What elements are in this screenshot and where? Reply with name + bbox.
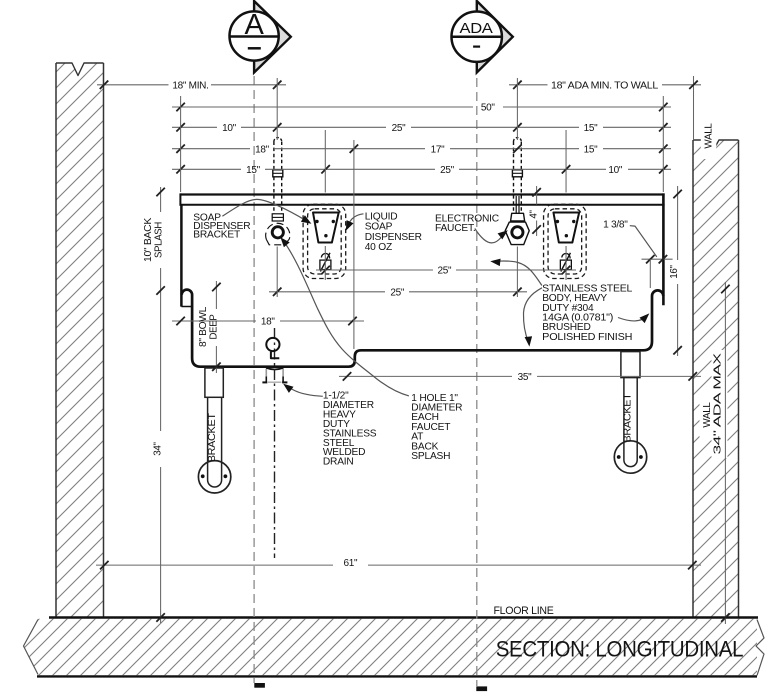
svg-text:WALL: WALL [703, 123, 714, 149]
svg-text:35": 35" [518, 372, 533, 383]
svg-text:25": 25" [390, 288, 405, 299]
svg-text:FLOOR LINE: FLOOR LINE [494, 605, 554, 617]
svg-text:25": 25" [440, 165, 455, 176]
svg-text:18": 18" [255, 144, 270, 155]
svg-text:40 OZ: 40 OZ [365, 242, 392, 253]
svg-text:4": 4" [529, 210, 540, 219]
svg-text:1 3/8": 1 3/8" [603, 219, 628, 230]
svg-text:17": 17" [431, 144, 446, 155]
svg-text:POLISHED FINISH: POLISHED FINISH [542, 332, 632, 343]
svg-text:15": 15" [584, 123, 599, 134]
svg-text:18": 18" [261, 317, 276, 328]
svg-text:18" ADA MIN. TO WALL: 18" ADA MIN. TO WALL [551, 81, 659, 92]
svg-text:SECTION: LONGITUDINAL: SECTION: LONGITUDINAL [496, 636, 744, 661]
svg-text:8" BOWL: 8" BOWL [198, 306, 209, 347]
svg-text:10": 10" [222, 123, 237, 134]
svg-text:WALL: WALL [702, 402, 713, 428]
svg-text:50": 50" [481, 103, 496, 114]
svg-text:34": 34" [153, 441, 164, 455]
svg-text:DRAIN: DRAIN [323, 457, 354, 468]
svg-text:25": 25" [438, 266, 453, 277]
svg-text:16": 16" [669, 264, 680, 278]
svg-text:25": 25" [392, 123, 407, 134]
svg-text:15": 15" [246, 165, 261, 176]
svg-text:SPLASH: SPLASH [153, 222, 164, 258]
svg-text:DEEP: DEEP [209, 314, 220, 340]
svg-text:10": 10" [608, 165, 623, 176]
svg-text:61": 61" [344, 558, 359, 569]
svg-text:SPLASH: SPLASH [411, 451, 450, 462]
svg-text:A: A [244, 9, 264, 41]
svg-text:34" ADA MAX: 34" ADA MAX [712, 352, 723, 454]
svg-text:18" MIN.: 18" MIN. [172, 81, 208, 92]
svg-text:BRACKET: BRACKET [207, 413, 218, 462]
svg-text:BRACKET: BRACKET [623, 393, 634, 442]
svg-text:15": 15" [584, 144, 599, 155]
svg-text:ADA: ADA [460, 21, 493, 37]
svg-text:BRACKET: BRACKET [193, 230, 240, 241]
svg-text:FAUCET.: FAUCET. [435, 223, 476, 234]
